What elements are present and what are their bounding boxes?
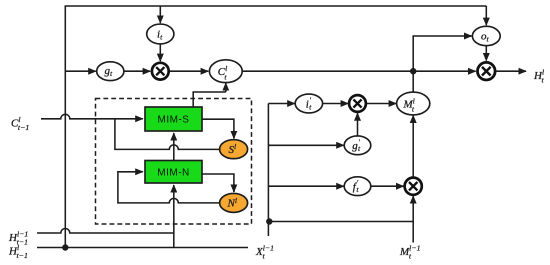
wire X riser to M(l-1) riser (268, 221, 413, 223)
label H^l_(t-1) (8, 243, 28, 260)
wire C_t long line to times2 (242, 70, 475, 72)
wire i_t down to times1 (159, 44, 161, 61)
wire MIM-N right to N_l (202, 174, 234, 192)
node junction dot M_t on main line (410, 68, 416, 74)
wire times3 to M_t (367, 103, 396, 105)
wire MIM-S top to C_t (193, 92, 226, 107)
wire H(l,t-1) bottom trunk line (37, 247, 248, 249)
memory S^l (220, 140, 248, 159)
label H^(l-1)_(t-1) (8, 229, 28, 246)
operator times1 (152, 63, 169, 80)
wire i't to times3 (323, 103, 349, 105)
wire drop from top edge into i_t (159, 6, 161, 23)
operator times3 (349, 95, 366, 112)
wire MIM-S right to S_l (202, 119, 234, 138)
label X^(l-1)_t (255, 243, 274, 260)
svg-text:g′t: g′t (352, 137, 361, 153)
dashed MIM enclosure (96, 99, 252, 225)
memory N^l (220, 193, 248, 212)
wire H(l-1,t-1) line with hop (37, 228, 174, 233)
wire g_t to times1 (124, 70, 150, 72)
gate g_t (97, 62, 124, 81)
wire times2 output H_t (496, 70, 526, 72)
MIM-S block (145, 107, 202, 131)
gate f't (344, 177, 371, 196)
label M^(l-1)_t (399, 243, 421, 260)
svg-text:MIM-N: MIM-N (157, 168, 190, 179)
gate i_t (147, 24, 174, 44)
wire left riser x=65 up to top (65, 6, 486, 248)
label C^l_(t-1) (11, 115, 29, 132)
wire X into f't (268, 185, 343, 187)
node junction dot X riser (266, 218, 272, 224)
operator times2 (478, 62, 496, 80)
gate o_t (472, 26, 500, 45)
wire MIM-N top to MIM-S bottom (173, 133, 175, 161)
wire o_t down into times2 (485, 46, 487, 61)
gate i't (295, 94, 322, 113)
wire X into g't (268, 144, 343, 146)
wire center riser from bottom into MIM-N (173, 233, 175, 248)
wire feed into g_t (65, 70, 96, 72)
wire g't up into times3 (357, 113, 359, 136)
label H^l_t output (533, 67, 545, 84)
wire M_t riser up and into o_t (413, 36, 471, 92)
gate g't (344, 136, 371, 155)
wire X riser (267, 104, 269, 237)
svg-text:MIM-S: MIM-S (158, 115, 190, 126)
wire hop arc on C line over left riser (41, 114, 143, 119)
wire top drop into o_t (485, 6, 487, 25)
wire S loop from S_l left back to C line (115, 119, 220, 150)
cell C_t^l (209, 60, 242, 83)
MIM-N block (145, 161, 202, 184)
node junction dot on H(l,t-1) at left riser (62, 244, 68, 250)
wire M(l-1) up into times4 (412, 196, 414, 243)
wire X into i't (268, 103, 294, 105)
wire times1 to C_t (170, 70, 209, 72)
wire N loop from N_l left back into MIM-N (118, 172, 220, 203)
cell M_t^l (397, 92, 430, 115)
wire f't to times4 (371, 185, 404, 187)
wire times4 up into M_t (412, 115, 414, 177)
operator times4 (405, 178, 422, 195)
